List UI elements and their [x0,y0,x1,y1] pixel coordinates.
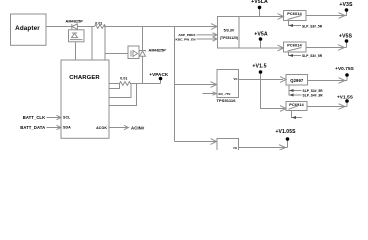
svg-text:+V0.75S: +V0.75S [335,66,354,71]
svg-text:0.01: 0.01 [120,77,127,81]
svg-text:SDA: SDA [63,126,71,130]
wire KBC_PW_EN arrow [197,37,218,41]
svg-text:SLP_S3#_5R: SLP_S3#_5R [302,25,323,29]
svg-text:PC6014: PC6014 [287,43,302,48]
wire U6 enable SLP_S3#_5R [289,85,323,93]
wire arrow into U2 main input [211,24,217,30]
wire arrow into U3 [278,14,284,20]
wire U3 enable SLP_S3#_5R [289,21,323,29]
node +V5A [254,31,268,48]
wire U4 output [306,45,347,51]
svg-text:Adapter: Adapter [15,25,40,32]
svg-text:TPS51116: TPS51116 [216,98,236,103]
wire charger battery pin [109,84,137,106]
svg-text:EN_.75V: EN_.75V [219,92,231,96]
adapter box [11,14,47,45]
wire main bus vertical [174,27,176,142]
node +V3S [339,2,353,15]
diode D1 on main rail [72,24,78,29]
wire U7 output [307,104,347,110]
node +V5LA [251,0,268,16]
wire U2 output rail 3V row [239,47,283,49]
wire ADP_PRES arrow [197,33,218,37]
svg-text:VO: VO [233,146,237,150]
svg-text:Q2997: Q2997 [290,78,304,83]
svg-text:AM4825P: AM4825P [66,19,84,23]
node +V1.5 [252,63,266,79]
svg-text:SCL: SCL [63,116,71,120]
svg-text:BATT_DATA: BATT_DATA [20,125,45,130]
wire kelvin sense A [109,84,120,89]
wire ACOK to ACIN# [109,125,129,129]
resistor R1 0.01 [95,22,106,29]
switch U7 PC6914 box [286,102,307,111]
charger box [61,60,109,138]
wire main rail to battery node [142,27,144,84]
wire U3 output [306,13,347,19]
regulator U5 TPS51116 box [217,70,239,98]
wire U4 enable SLP_S3#_5R [289,52,323,58]
wire +V1.5 down to U7 [261,80,286,109]
svg-text:AM4825P: AM4825P [149,49,167,53]
wire U8 output [239,145,288,151]
wire arrow into U7 [280,106,286,112]
svg-text:BATT_CLK: BATT_CLK [23,115,45,120]
wire U6 enable SLP_S4#_3R [289,91,323,98]
resistor R2 0.01 [109,77,143,86]
switch U4 PC6014 box [284,42,307,52]
svg-text:+V1.05S: +V1.05S [275,129,296,135]
svg-text:+V5LA: +V5LA [251,0,268,5]
wire U5 output [239,79,283,81]
node +VPACK [143,72,169,84]
wire kelvin sense B [109,84,131,98]
wire D1 to resistor R1 [78,26,95,28]
svg-text:VO: VO [234,77,238,81]
wire adapter to diode D1 [46,26,72,28]
svg-text:+V1.5: +V1.5 [252,63,266,69]
wire BATT_CLK arrow [47,115,62,119]
svg-text:KBC_PW_EN: KBC_PW_EN [176,37,197,41]
wire bus to U5 input arrow [175,82,217,88]
wire bus to U8 input arrow [175,139,217,145]
svg-text:5/3.3V: 5/3.3V [224,29,235,33]
wire U2 output rail 5V row [239,16,283,18]
transistor Q2 box with diode [128,46,139,59]
svg-text:ACIN#: ACIN# [131,126,145,131]
wire U6 output [308,78,348,84]
node +V1.05S [275,129,296,148]
svg-text:+VPACK: +VPACK [149,72,169,77]
node +V5S [339,33,353,47]
svg-text:(TPS51125): (TPS51125) [220,36,238,40]
transistor U6 Q2997 box [286,75,308,86]
wire sense tap right [104,27,106,61]
svg-text:SLP_S3#_5R: SLP_S3#_5R [302,54,323,58]
diode D3 body diode of Q2 [140,51,146,57]
node +V0.75S [335,66,354,80]
svg-text:CHARGER: CHARGER [69,75,100,81]
svg-text:SLP_S4#_3R: SLP_S4#_3R [303,94,324,98]
svg-text:+V3S: +V3S [339,2,353,8]
svg-text:+V5S: +V5S [339,33,353,39]
transistor Q1 body box with diode [69,30,85,42]
svg-text:+V1.5S: +V1.5S [337,95,353,100]
svg-text:ACOK: ACOK [96,126,107,130]
regulator U2 TPS51125 box [218,17,240,49]
switch U3 PC6014 box [284,11,307,21]
wire to Q2 input [105,53,128,55]
wire U7 enable [292,111,303,120]
regulator U8 box [217,139,239,159]
wire U5 enable stub [203,92,217,95]
wire arrow into U6 [280,77,286,83]
wire Q1 to charger top [75,42,77,61]
wire arrow into U4 [278,45,284,51]
svg-text:+V5A: +V5A [254,31,268,37]
wire sense tap left [91,27,93,61]
wire R1 to TPS51125 input [104,26,217,28]
node +V1.5S [337,95,353,107]
svg-text:SLP_S3#_5R: SLP_S3#_5R [303,89,324,93]
wire BATT_DATA arrow [47,125,62,129]
